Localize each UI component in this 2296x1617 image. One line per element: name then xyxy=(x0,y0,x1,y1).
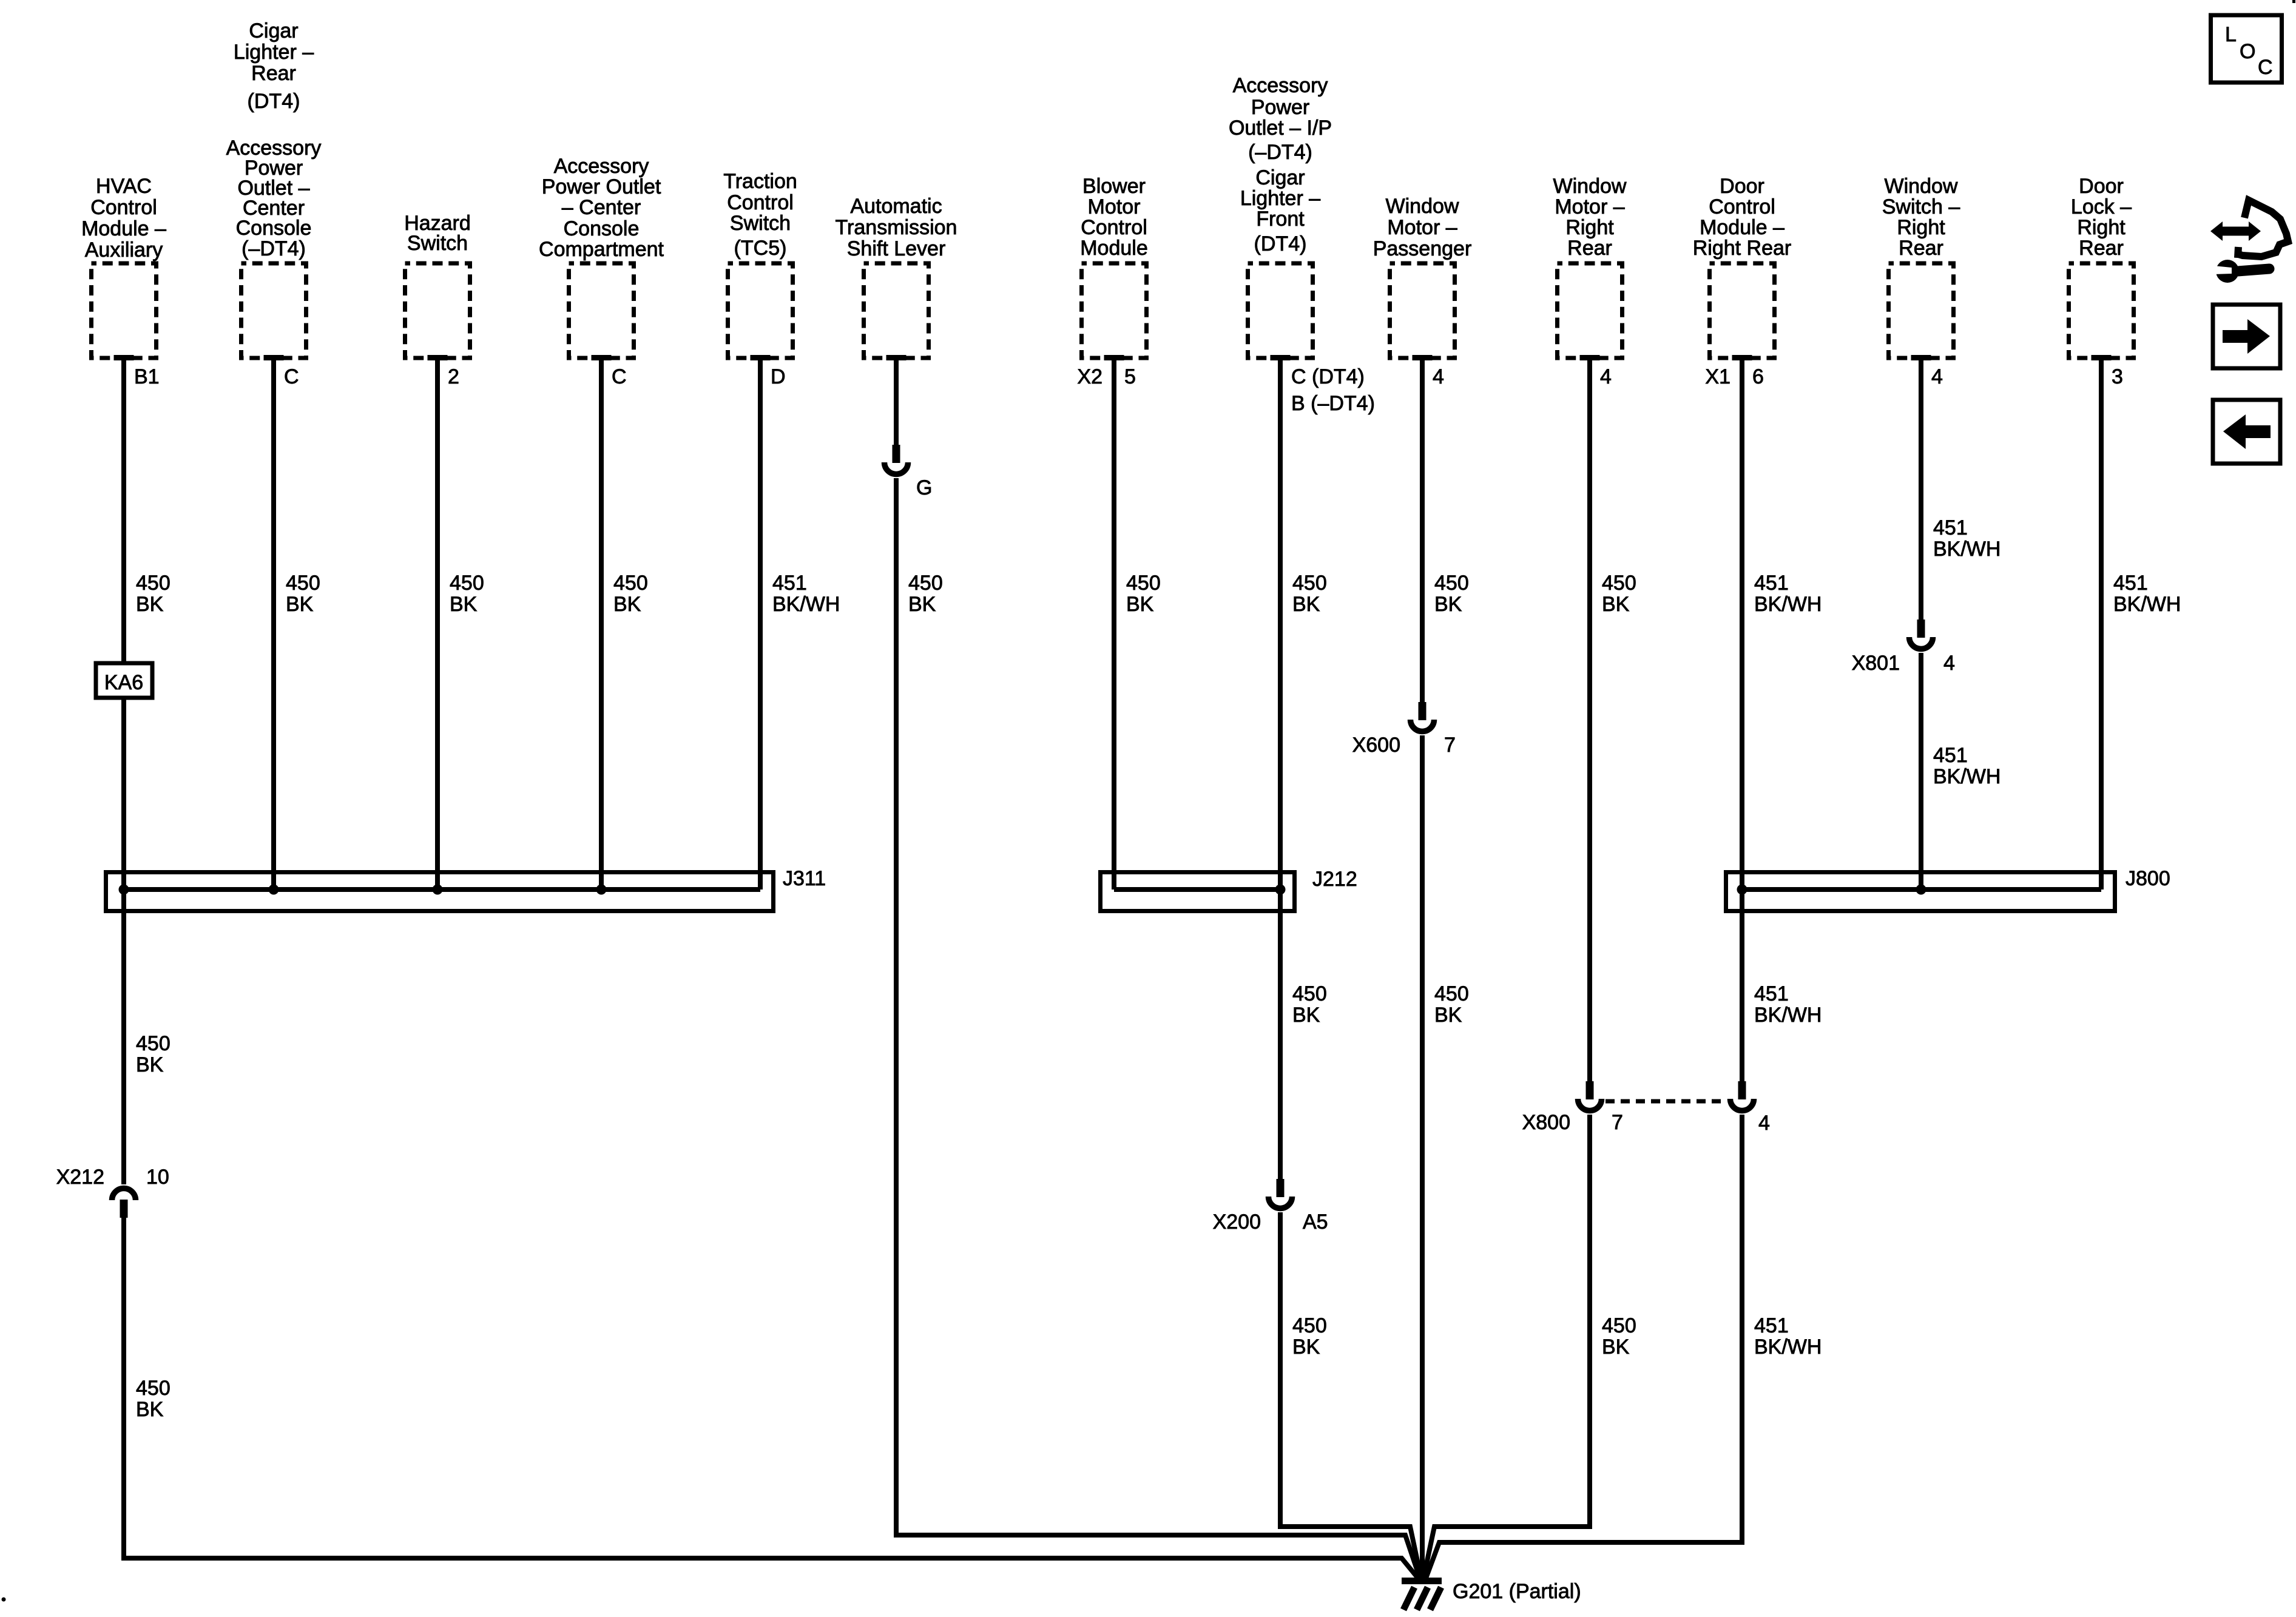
in-line connector X212 pin 10 xyxy=(56,1166,169,1218)
svg-text:Accessory: Accessory xyxy=(1233,74,1328,97)
svg-text:4: 4 xyxy=(1758,1112,1770,1135)
svg-text:Auxiliary: Auxiliary xyxy=(85,238,163,262)
svg-text:O: O xyxy=(2240,40,2255,63)
wire 450 BK from KA6 through splice J311 to connector X212 xyxy=(124,700,171,1184)
wire 451 BK/WH from X801 to splice J800 xyxy=(1921,653,2001,890)
svg-text:HVAC: HVAC xyxy=(96,175,152,198)
svg-text:D: D xyxy=(771,365,786,388)
svg-text:450: 450 xyxy=(450,572,484,595)
svg-text:Cigar: Cigar xyxy=(1255,166,1305,189)
module: Door Control Module - Right Rear xyxy=(1693,175,1792,360)
splice block J800 xyxy=(1726,867,2170,911)
svg-text:451: 451 xyxy=(1754,982,1789,1005)
svg-text:Rear: Rear xyxy=(2079,237,2124,260)
in-line connector pin 4 (mates X800) xyxy=(1730,1081,1770,1135)
in-line connector X200 pin A5 xyxy=(1213,1179,1328,1234)
module: Window Motor - Passenger xyxy=(1373,195,1472,360)
ground G201 (Partial) xyxy=(1402,1578,1581,1610)
pin D of Traction Control Switch xyxy=(771,365,786,388)
module: Window Switch - Right Rear xyxy=(1882,175,1960,360)
svg-text:450: 450 xyxy=(136,572,171,595)
module: Automatic Transmission Shift Lever xyxy=(836,195,957,360)
svg-text:(DT4): (DT4) xyxy=(1254,232,1307,255)
svg-text:450: 450 xyxy=(908,572,943,595)
pin 2 of Hazard Switch xyxy=(448,365,459,388)
svg-text:Motor –: Motor – xyxy=(1555,195,1624,218)
module: Window Motor - Right Rear xyxy=(1553,175,1627,360)
svg-text:(DT4): (DT4) xyxy=(248,90,300,113)
svg-text:Outlet – I/P: Outlet – I/P xyxy=(1229,116,1332,140)
svg-text:Control: Control xyxy=(727,191,794,214)
in-line connector pin G xyxy=(885,445,933,499)
legend: vehicle outline with double arrow and wrench icon xyxy=(2210,200,2288,283)
svg-text:BK/WH: BK/WH xyxy=(1933,538,2001,561)
svg-text:3: 3 xyxy=(2112,365,2123,388)
svg-text:X801: X801 xyxy=(1852,652,1900,675)
pin C of Accessory Power Outlet - Center Console Compartment xyxy=(612,365,627,388)
svg-text:450: 450 xyxy=(1434,982,1469,1005)
svg-text:BK/WH: BK/WH xyxy=(2113,593,2181,616)
svg-text:Right: Right xyxy=(1897,216,1945,239)
splice block J212 xyxy=(1101,868,1357,911)
svg-text:Lighter –: Lighter – xyxy=(234,41,314,64)
svg-text:Window: Window xyxy=(1553,175,1627,198)
svg-text:BK: BK xyxy=(136,1053,164,1076)
dashed mating line between X800 pin 7 and connector pin 4 xyxy=(1606,1099,1726,1104)
wire 450 BK from connector G to ground G201 xyxy=(896,478,1420,1578)
svg-text:Transmission: Transmission xyxy=(836,216,957,239)
svg-text:451: 451 xyxy=(1754,1314,1789,1337)
svg-text:450: 450 xyxy=(613,572,648,595)
svg-text:BK: BK xyxy=(450,593,478,616)
svg-text:Compartment: Compartment xyxy=(539,238,664,261)
svg-text:A5: A5 xyxy=(1303,1210,1328,1234)
wire 450 BK from Cigar Lighter Front through splice J212 to connector X200 xyxy=(1280,360,1327,1179)
wire 450 BK from Blower Motor Control Module to splice J212 xyxy=(1114,360,1161,890)
svg-text:B1: B1 xyxy=(134,365,160,388)
legend: arrow box (left) xyxy=(2213,400,2280,464)
module: Accessory Power Outlet - I/P (-DT4) / Cigar Lighter - Front (DT4) xyxy=(1229,74,1332,360)
wire 451 BK/WH from Door Control Module through splice J800 to connector pin 4 xyxy=(1742,360,1822,1081)
svg-text:X600: X600 xyxy=(1352,734,1400,757)
svg-text:450: 450 xyxy=(1292,1314,1327,1337)
svg-text:Module: Module xyxy=(1080,237,1148,260)
svg-text:451: 451 xyxy=(1933,516,1968,539)
wire 450 BK from X600 to ground G201 xyxy=(1422,735,1469,1578)
pin X2 / 5 of Blower Motor Control Module xyxy=(1077,365,1136,388)
svg-text:(–DT4): (–DT4) xyxy=(1248,141,1312,164)
svg-text:BK: BK xyxy=(136,1398,164,1421)
svg-text:L: L xyxy=(2225,23,2237,46)
svg-text:BK/WH: BK/WH xyxy=(1754,593,1822,616)
svg-text:Passenger: Passenger xyxy=(1373,237,1472,260)
module: Door Lock - Right Rear xyxy=(2069,175,2134,360)
svg-text:Traction: Traction xyxy=(723,170,797,193)
in-line connector X600 pin 7 xyxy=(1352,702,1456,757)
wire 450 BK from Window Motor Passenger to connector X600 xyxy=(1422,360,1469,702)
wire 450 BK from Cigar Lighter Rear to splice J311 xyxy=(274,360,320,890)
svg-text:KA6: KA6 xyxy=(104,671,143,694)
svg-text:Accessory: Accessory xyxy=(554,155,649,178)
svg-text:X200: X200 xyxy=(1213,1210,1261,1234)
svg-text:5: 5 xyxy=(1124,365,1136,388)
svg-text:4: 4 xyxy=(1931,365,1943,388)
svg-text:BK/WH: BK/WH xyxy=(772,593,840,616)
svg-text:Control: Control xyxy=(90,196,157,219)
svg-text:Rear: Rear xyxy=(251,62,296,85)
svg-text:BK: BK xyxy=(286,593,314,616)
svg-text:X1: X1 xyxy=(1705,365,1730,388)
svg-text:G: G xyxy=(916,476,932,499)
module: Hazard Switch xyxy=(404,212,471,360)
svg-text:451: 451 xyxy=(772,572,807,595)
legend: arrow box (right) xyxy=(2213,305,2280,368)
svg-text:Door: Door xyxy=(1720,175,1764,198)
svg-text:451: 451 xyxy=(2113,572,2148,595)
wire stub from Automatic Transmission Shift Lever to connector pin G xyxy=(894,360,899,445)
svg-text:450: 450 xyxy=(1292,572,1327,595)
wire 450 BK from APO Center Console Compartment to splice J311 xyxy=(601,360,648,890)
junction dots on J311 xyxy=(119,885,607,895)
svg-text:BK: BK xyxy=(1292,1004,1320,1027)
svg-text:Console: Console xyxy=(236,217,312,240)
module: Traction Control Switch (TC5) xyxy=(723,170,797,360)
svg-text:Switch: Switch xyxy=(730,212,791,235)
svg-text:J800: J800 xyxy=(2125,867,2170,890)
svg-text:(TC5): (TC5) xyxy=(734,237,787,260)
fuse KA6 xyxy=(96,663,152,698)
svg-text:450: 450 xyxy=(286,572,320,595)
wire 450 BK from Window Motor Right Rear to connector X800 xyxy=(1590,360,1636,1081)
page corner tick bottom-left xyxy=(2,1598,6,1602)
svg-text:450: 450 xyxy=(1292,982,1327,1005)
svg-text:BK: BK xyxy=(1602,1335,1630,1359)
svg-text:Switch –: Switch – xyxy=(1882,195,1960,218)
svg-text:Lock –: Lock – xyxy=(2071,195,2132,218)
svg-text:BK: BK xyxy=(1434,1004,1462,1027)
svg-text:BK: BK xyxy=(908,593,936,616)
pin 4 of Window Switch - Right Rear xyxy=(1931,365,1943,388)
svg-text:7: 7 xyxy=(1444,734,1456,757)
pins C (DT4) / B (-DT4) of Cigar Lighter - Front xyxy=(1291,365,1375,415)
pin C of Cigar Lighter - Rear xyxy=(284,365,299,388)
svg-text:Blower: Blower xyxy=(1082,175,1146,198)
svg-text:Module –: Module – xyxy=(1700,216,1784,239)
module: Cigar Lighter - Rear (DT4) / Accessory Power Outlet - Center Console (-DT4) xyxy=(226,19,322,360)
svg-text:J311: J311 xyxy=(783,867,826,890)
svg-text:BK: BK xyxy=(1292,593,1320,616)
junction dot on J212 xyxy=(1275,885,1286,895)
pin 4 of Window Motor - Right Rear xyxy=(1600,365,1612,388)
svg-text:BK: BK xyxy=(1602,593,1630,616)
module: Blower Motor Control Module xyxy=(1080,175,1148,360)
svg-text:450: 450 xyxy=(136,1032,171,1055)
pin B1 of HVAC Control Module xyxy=(134,365,160,388)
svg-text:Cigar: Cigar xyxy=(249,19,298,42)
svg-text:X800: X800 xyxy=(1522,1111,1570,1134)
svg-text:Console: Console xyxy=(564,217,640,240)
svg-text:Control: Control xyxy=(1709,195,1775,218)
svg-text:6: 6 xyxy=(1752,365,1764,388)
svg-text:Power: Power xyxy=(1251,96,1309,119)
svg-text:450: 450 xyxy=(1602,1314,1636,1337)
svg-text:Window: Window xyxy=(1885,175,1958,198)
svg-text:4: 4 xyxy=(1433,365,1444,388)
svg-text:2: 2 xyxy=(448,365,459,388)
in-line connector X801 pin 4 xyxy=(1852,619,1955,675)
wire 451 BK/WH from Traction Control Switch to splice J311 xyxy=(760,360,840,890)
wire 451 BK/WH from Window Switch to connector X801 xyxy=(1921,360,2001,619)
splice block J311 xyxy=(106,867,826,911)
svg-text:Motor –: Motor – xyxy=(1387,216,1457,239)
svg-text:Window: Window xyxy=(1386,195,1459,218)
svg-text:Rear: Rear xyxy=(1899,237,1943,260)
svg-text:Control: Control xyxy=(1081,216,1147,239)
svg-text:Rear: Rear xyxy=(1567,237,1612,260)
svg-text:450: 450 xyxy=(1126,572,1161,595)
page corner tick top-right xyxy=(2292,0,2295,3)
svg-text:(–DT4): (–DT4) xyxy=(241,237,306,260)
svg-text:X2: X2 xyxy=(1077,365,1102,388)
svg-text:BK/WH: BK/WH xyxy=(1754,1335,1822,1359)
svg-text:C (DT4): C (DT4) xyxy=(1291,365,1365,388)
svg-text:Power Outlet: Power Outlet xyxy=(542,175,661,198)
svg-text:Door: Door xyxy=(2079,175,2124,198)
svg-text:Switch: Switch xyxy=(407,232,468,255)
svg-text:BK: BK xyxy=(613,593,641,616)
svg-text:451: 451 xyxy=(1754,572,1789,595)
svg-text:BK: BK xyxy=(1126,593,1154,616)
svg-text:7: 7 xyxy=(1612,1111,1623,1134)
svg-text:C: C xyxy=(612,365,627,388)
svg-text:B (–DT4): B (–DT4) xyxy=(1291,392,1375,415)
pin 4 of Window Motor - Passenger xyxy=(1433,365,1444,388)
svg-text:C: C xyxy=(2258,56,2273,79)
svg-text:Lighter –: Lighter – xyxy=(1240,187,1320,210)
svg-text:BK: BK xyxy=(136,593,164,616)
wire 450 BK from HVAC B1 to fuse KA6 xyxy=(124,360,171,663)
svg-text:450: 450 xyxy=(136,1377,171,1400)
svg-text:BK/WH: BK/WH xyxy=(1754,1004,1822,1027)
wire 451 BK/WH from connector pin 4 to ground G201 xyxy=(1426,1115,1822,1578)
pin X1 / 6 of Door Control Module - Right Rear xyxy=(1705,365,1764,388)
svg-text:450: 450 xyxy=(1602,572,1636,595)
svg-text:Shift Lever: Shift Lever xyxy=(847,237,946,260)
svg-text:BK: BK xyxy=(1434,593,1462,616)
module: Accessory Power Outlet - Center Console Compartment xyxy=(539,155,664,360)
wire 451 BK/WH from Door Lock to splice J800 xyxy=(2101,360,2181,890)
wire 450 BK from X200 to ground G201 xyxy=(1280,1212,1421,1578)
svg-text:X212: X212 xyxy=(56,1166,104,1189)
svg-text:Motor: Motor xyxy=(1088,195,1141,218)
svg-text:J212: J212 xyxy=(1312,868,1357,891)
svg-text:Automatic: Automatic xyxy=(850,195,942,218)
wire 450 BK from X800 to ground G201 xyxy=(1423,1115,1636,1578)
svg-text:BK/WH: BK/WH xyxy=(1933,765,2001,788)
in-line connector X800 pin 7 xyxy=(1522,1081,1623,1134)
svg-text:451: 451 xyxy=(1933,744,1968,767)
wire 450 BK from Hazard Switch to splice J311 xyxy=(437,360,484,890)
svg-text:10: 10 xyxy=(146,1166,169,1189)
svg-text:4: 4 xyxy=(1943,652,1955,675)
svg-text:Module –: Module – xyxy=(81,217,166,240)
svg-text:Right: Right xyxy=(2077,216,2125,239)
svg-text:Front: Front xyxy=(1256,208,1305,231)
svg-text:C: C xyxy=(284,365,299,388)
svg-text:450: 450 xyxy=(1434,572,1469,595)
svg-text:Right Rear: Right Rear xyxy=(1693,237,1792,260)
svg-text:4: 4 xyxy=(1600,365,1612,388)
svg-text:BK: BK xyxy=(1292,1335,1320,1359)
svg-text:G201 (Partial): G201 (Partial) xyxy=(1453,1580,1581,1603)
svg-text:– Center: – Center xyxy=(562,196,641,219)
module: HVAC Control Module - Auxiliary xyxy=(81,175,166,360)
svg-text:Right: Right xyxy=(1565,216,1614,239)
legend: LOC box xyxy=(2211,15,2282,83)
junction dots on J800 xyxy=(1737,885,1926,895)
wire 450 BK from X212 to ground G201 xyxy=(124,1218,1418,1578)
pin 3 of Door Lock - Right Rear xyxy=(2112,365,2123,388)
